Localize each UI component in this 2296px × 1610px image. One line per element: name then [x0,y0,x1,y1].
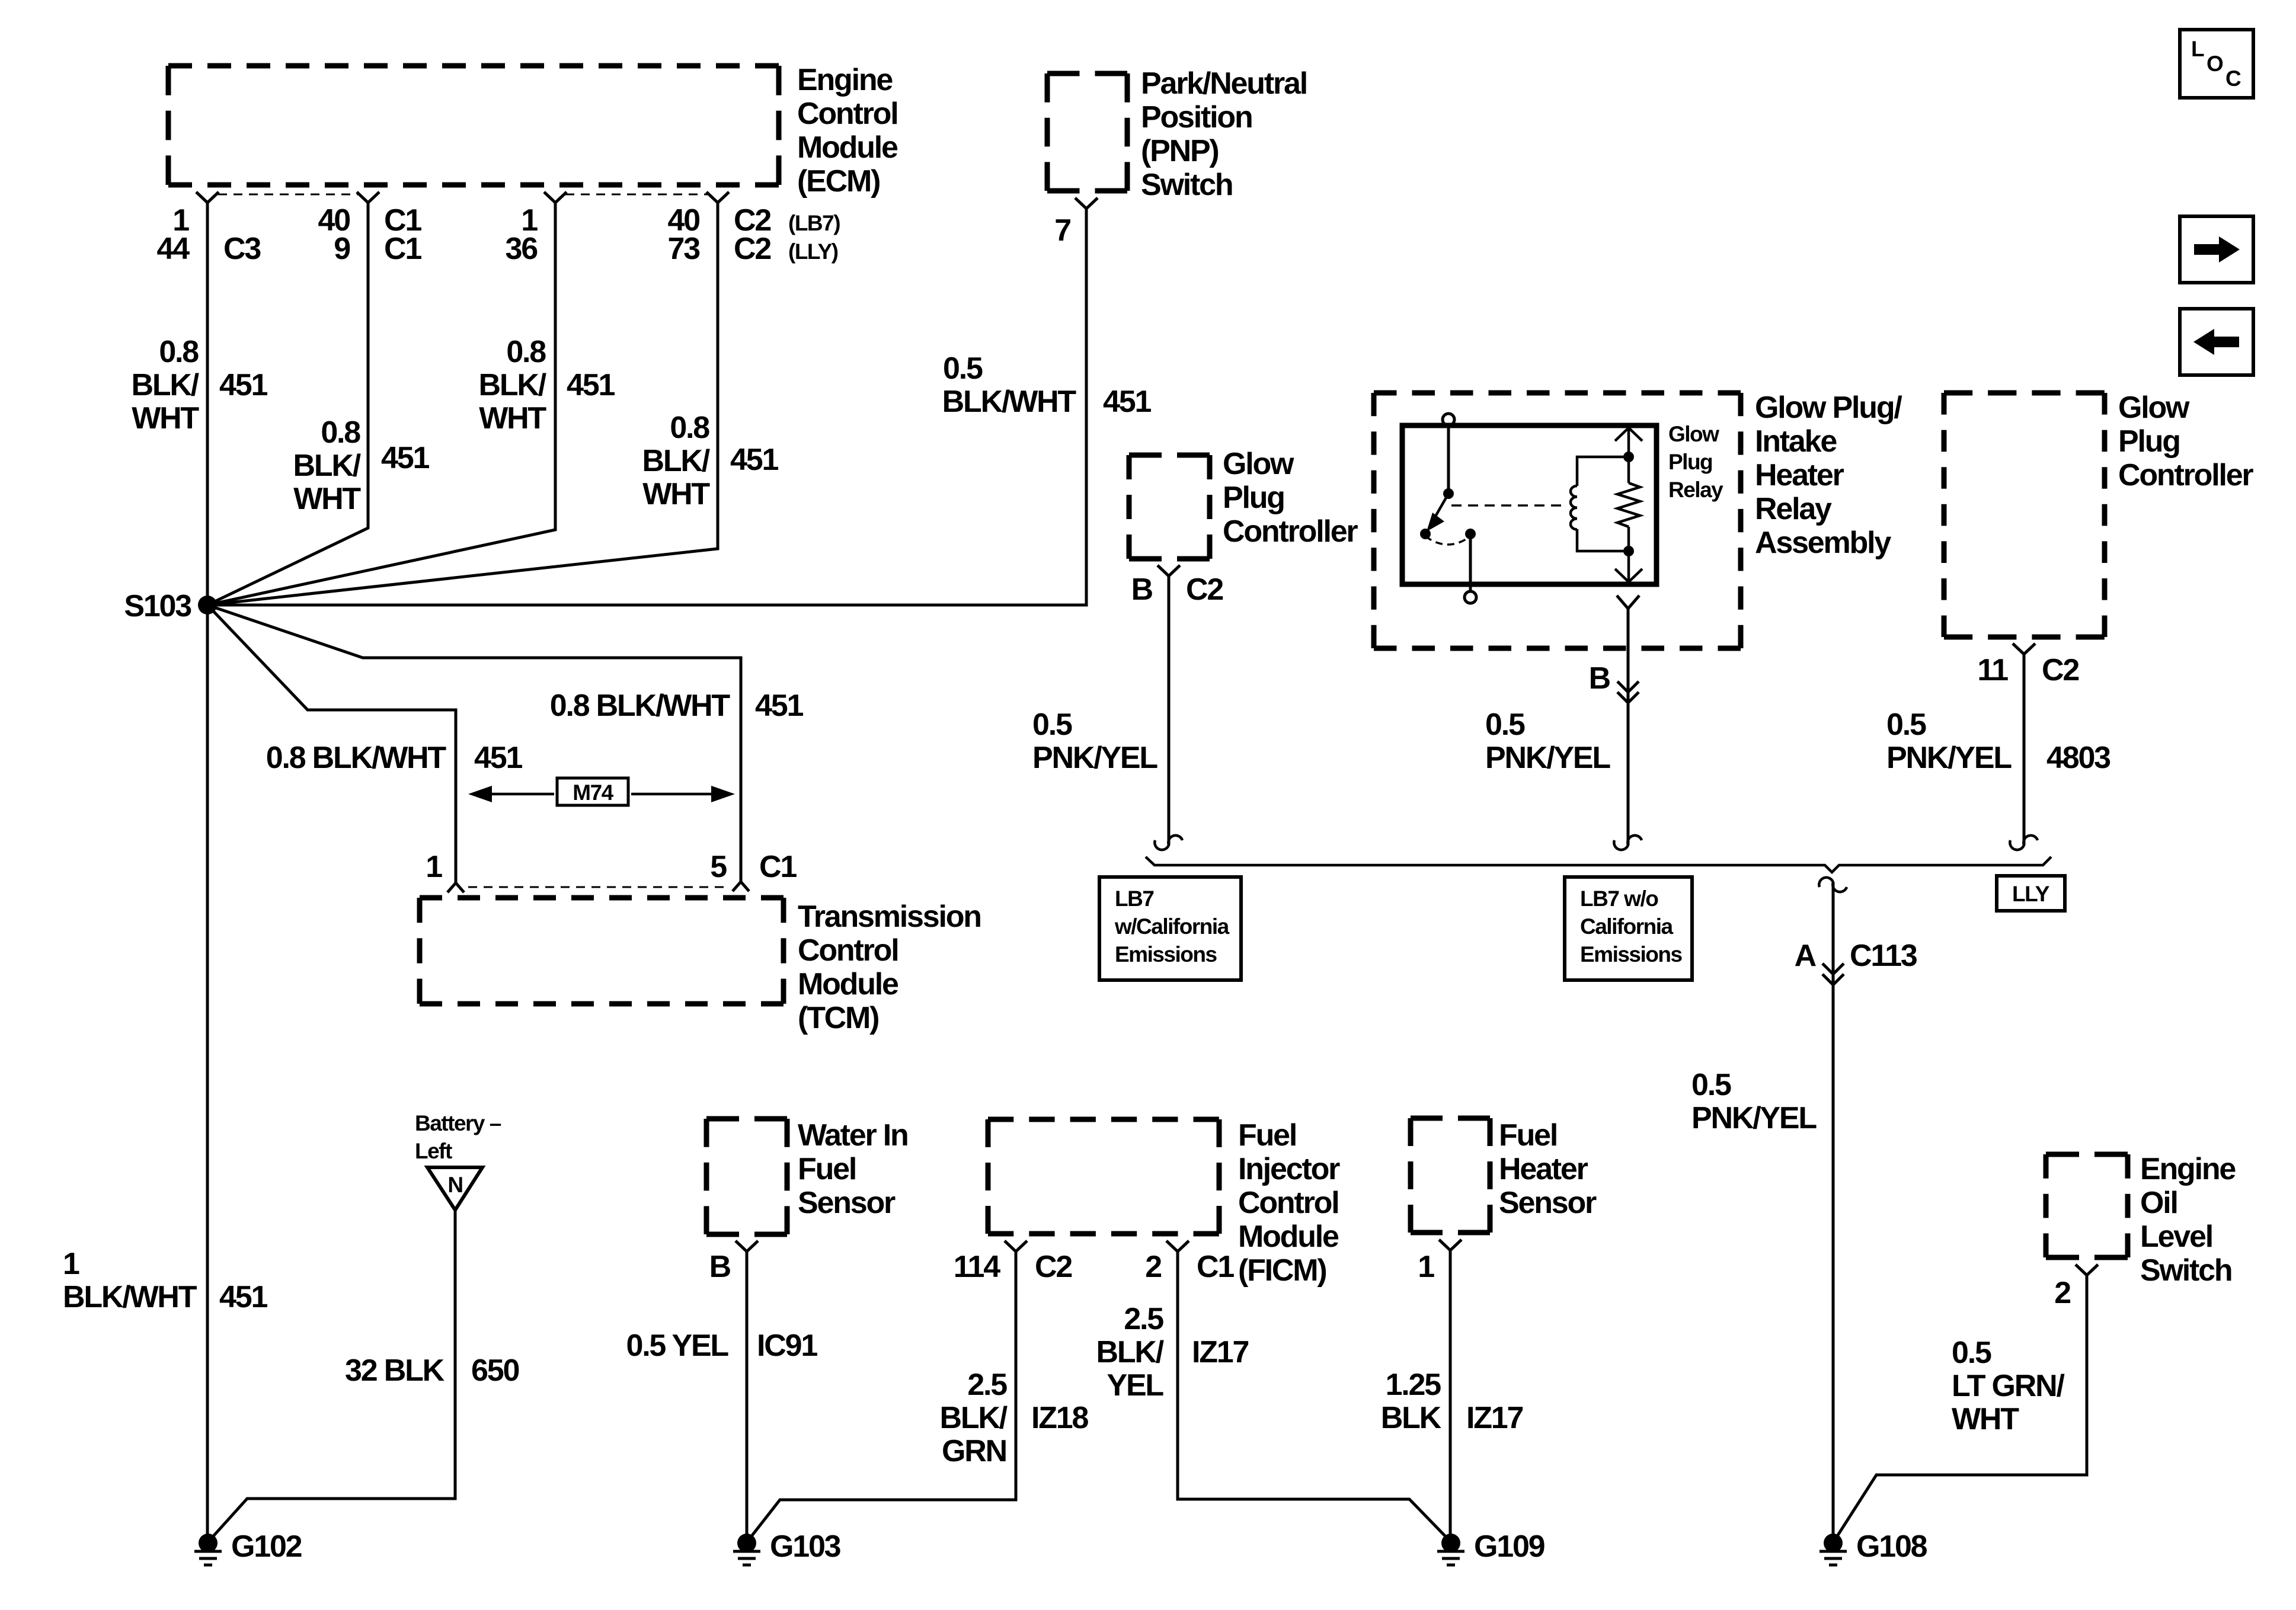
wire4 label 0.8 BLK/WHT [642,411,710,511]
S103 label [124,589,191,623]
svg-text:Intake: Intake [1755,424,1837,459]
ground G103 [733,1534,760,1565]
svg-text:7: 7 [1054,213,1070,248]
svg-text:451: 451 [755,689,803,723]
relay arrow down to box edge [1615,551,1642,582]
wire1 lower label 1 BLK/WHT 451 [63,1247,267,1314]
TCM pin5 wire label 0.8 BLK/WHT [550,689,731,723]
FICM114 wire label 2.5 BLK/ GRN [939,1368,1007,1468]
svg-text:WHT: WHT [479,401,546,436]
svg-text:Glow: Glow [2118,391,2190,425]
Water sensor pin B connector fork [736,1241,758,1251]
battery wire label 32 BLK [345,1353,445,1388]
relay coil junction dot bottom [1623,546,1634,556]
svg-text:C2: C2 [734,232,770,266]
svg-text:114: 114 [954,1250,1001,1284]
svg-text:9: 9 [334,232,350,266]
svg-text:1.25: 1.25 [1386,1368,1441,1402]
svg-text:LLY: LLY [2012,882,2050,906]
svg-text:451: 451 [567,368,615,402]
svg-text:5: 5 [710,850,727,884]
svg-text:Module: Module [1238,1219,1339,1254]
svg-text:Fuel: Fuel [1499,1118,1557,1153]
relay switch dashed travel arc [1425,536,1470,545]
relay switch arm with arrowhead [1427,494,1448,532]
harness M74 double arrow [468,786,735,802]
wire 0.5 PNK/YEL from GPC left pin B down to option brace [1168,576,1171,845]
svg-text:LT GRN/: LT GRN/ [1952,1369,2064,1403]
svg-text:44: 44 [157,232,190,266]
FICM dashed box [988,1119,1219,1234]
wire 0.8 BLK/WHT 451 from S103 to TCM pin 1 [207,605,456,883]
G102 label [231,1529,302,1564]
Fuel heater pin 1 label [1418,1250,1434,1284]
wire 0.8 BLK/WHT 451 from ECM pin 9 to S103 [207,203,368,605]
svg-text:0.8: 0.8 [670,411,709,445]
svg-text:0.8: 0.8 [321,415,360,450]
Fuel heater pin 1 connector fork [1439,1240,1462,1250]
svg-text:Control: Control [1238,1186,1338,1220]
svg-text:0.5: 0.5 [943,351,983,386]
svg-text:N: N [447,1173,462,1197]
svg-text:2: 2 [2054,1276,2070,1310]
svg-text:2.5: 2.5 [1124,1302,1163,1336]
svg-text:(FICM): (FICM) [1238,1253,1326,1288]
relay coil branch [1571,457,1629,551]
svg-text:650: 650 [471,1353,519,1388]
GPC left pin B C2 connector fork [1157,565,1180,576]
svg-text:YEL: YEL [1107,1368,1163,1403]
TCM pin 1 connector fork [447,883,464,892]
ECM pin 40/9 C1 labels [318,203,422,266]
svg-text:B: B [1589,661,1610,696]
wire3 label 0.8 BLK/WHT [478,335,546,436]
battery negative terminal triangle N [427,1167,482,1210]
svg-text:Switch: Switch [1141,168,1232,202]
svg-text:451: 451 [474,741,522,775]
C113 double chevron [1822,964,1844,985]
LOC reference box [2180,30,2253,98]
svg-text:451: 451 [730,443,778,477]
relay coil junction dot top [1623,452,1634,462]
splice S103 [198,596,217,614]
svg-text:Control: Control [797,97,897,131]
Glow Plug Relay Assembly dashed box [1374,393,1741,648]
Glow Plug Relay Assembly label [1755,391,1902,560]
svg-text:IZ17: IZ17 [1192,1335,1249,1369]
svg-text:G109: G109 [1474,1529,1544,1564]
svg-text:Assembly: Assembly [1755,526,1891,560]
FICM114 wire circuit IZ18 [1031,1401,1089,1435]
relay output connector fork [1617,596,1639,609]
svg-text:GRN: GRN [942,1434,1006,1468]
svg-text:Emissions: Emissions [1580,942,1682,966]
svg-text:PNK/YEL: PNK/YEL [1691,1101,1817,1135]
PNP switch dashed box [1047,73,1127,191]
svg-text:Engine: Engine [797,63,893,97]
PNP wire circuit number 451 [1103,385,1151,419]
svg-text:w/California: w/California [1114,914,1230,939]
relay switch output wire [1469,534,1472,591]
wire2 label 0.8 BLK/WHT [293,415,361,516]
ECM U1 dashed box [168,66,779,185]
svg-text:IZ18: IZ18 [1031,1401,1089,1435]
svg-text:36: 36 [506,232,538,266]
relay switch contact dot right [1465,529,1476,539]
wire 32 BLK 650 from battery to G102 [209,1210,455,1541]
Glow Plug Controller left label [1223,447,1358,549]
svg-text:Heater: Heater [1755,458,1844,492]
svg-text:LB7: LB7 [1115,886,1153,911]
relay resistor branch [1617,457,1640,551]
svg-text:Transmission: Transmission [798,900,981,934]
GPC left pin B C2 labels [1131,572,1223,607]
ground G109 [1437,1534,1464,1565]
svg-text:451: 451 [219,1280,267,1314]
wire4 circuit number 451 [730,443,778,477]
GPC right pin 11 C2 connector fork [2013,644,2035,654]
wire 1.25 BLK IZ17 from fuel heater sensor to G109 [1449,1250,1452,1543]
svg-text:Battery –: Battery – [415,1111,501,1135]
svg-text:(ECM): (ECM) [797,164,880,199]
G109 label [1474,1529,1544,1564]
svg-text:California: California [1580,914,1674,939]
svg-text:0.5: 0.5 [1485,708,1525,742]
svg-text:Controller: Controller [1223,514,1358,549]
svg-text:PNK/YEL: PNK/YEL [1485,741,1610,775]
svg-text:Engine: Engine [2140,1152,2236,1186]
svg-text:0.8: 0.8 [159,335,199,369]
wire 0.5 BLK/WHT 451 from PNP switch pin 7 to S103 [207,209,1086,605]
wire 0.5 YEL IC91 from water sensor to G103 [746,1251,749,1543]
FICM pin 2 C1 labels [1145,1250,1234,1284]
ECM pin 40/73 C2 labels [668,203,840,266]
svg-text:Sensor: Sensor [1499,1186,1597,1220]
relay switch contact dot left [1420,529,1431,539]
svg-text:Glow Plug/: Glow Plug/ [1755,391,1902,425]
svg-text:IZ17: IZ17 [1466,1401,1523,1435]
svg-text:Plug: Plug [2118,424,2180,459]
GPC left wire label 0.5 PNK/YEL [1032,708,1157,775]
svg-text:0.5: 0.5 [1691,1068,1731,1102]
battery negative label Battery - Left [415,1111,501,1163]
svg-text:WHT: WHT [1952,1402,2019,1436]
ECM pin 1/44 C3 labels [157,203,261,266]
svg-text:73: 73 [668,232,701,266]
svg-text:2.5: 2.5 [967,1368,1007,1402]
arrow left reference box [2180,309,2253,375]
wire 0.5 LT GRN/WHT from oil switch to G108 [1834,1275,2087,1541]
svg-text:WHT: WHT [132,401,199,436]
svg-text:0.8: 0.8 [506,335,546,369]
ECM pin 1 C3 connector fork [196,192,219,203]
arrow right reference box [2180,216,2253,283]
svg-text:0.8 BLK/WHT: 0.8 BLK/WHT [266,741,447,775]
svg-text:BLK: BLK [1381,1401,1442,1435]
A C113 wire start curl below brace [1819,878,1847,892]
FICM pin 114 C2 labels [954,1250,1072,1284]
svg-text:G102: G102 [231,1529,302,1564]
wire 0.8 BLK/WHT 451 from ECM pin 44 down to S103 and on to G102 [206,203,209,1543]
svg-text:C1: C1 [1197,1250,1234,1284]
svg-text:32 BLK: 32 BLK [345,1353,445,1388]
svg-text:S103: S103 [124,589,191,623]
fuel heater wire circuit IZ17 [1466,1401,1523,1435]
relay switch common wire [1447,425,1450,494]
GPC right pin 11 C2 labels [1977,653,2078,687]
ECM pin 1/36 connector fork [544,192,567,203]
svg-text:B: B [1131,572,1153,607]
svg-text:0.5: 0.5 [1032,708,1072,742]
TCM pin1 circuit number 451 [474,741,522,775]
wire 2.5 BLK/GRN IZ18 from FICM 114 to G103 [748,1251,1016,1541]
oil switch wire label 0.5 LT GRN/ WHT [1952,1336,2064,1436]
wire3 circuit number 451 [567,368,615,402]
svg-text:L: L [2191,37,2204,61]
svg-text:0.8 BLK/WHT: 0.8 BLK/WHT [550,689,731,723]
svg-text:Module: Module [798,967,898,1001]
svg-text:BLK/: BLK/ [478,368,546,402]
svg-text:Injector: Injector [1238,1152,1340,1186]
ECM pin 1/36 labels [506,203,538,266]
wire 0.5 PNK/YEL from brace through C113 to G108 [1832,882,1835,1543]
connector row thin dashed line C2 [565,194,708,196]
Engine Oil Level Switch dashed box [2046,1154,2128,1257]
oil switch pin 2 label [2054,1276,2070,1310]
GPC right wire end curl [2010,836,2038,850]
svg-text:BLK/: BLK/ [131,368,199,402]
LLY box [1997,876,2065,911]
option brace line [1146,857,2051,872]
relay top terminal circle [1443,414,1454,425]
svg-text:Controller: Controller [2118,458,2253,492]
svg-text:C1: C1 [384,232,421,266]
TCM dashed box [420,898,784,1004]
svg-text:Glow: Glow [1223,447,1294,481]
Glow Plug Relay inner solid box [1402,425,1657,584]
wire1 label 0.8 BLK/WHT [131,335,199,436]
oil switch pin 2 connector fork [2076,1265,2098,1275]
svg-text:C: C [2225,66,2241,91]
wire 0.5 PNK/YEL 4803 from GPC right pin 11 to option brace [2023,654,2026,845]
svg-text:1: 1 [63,1247,79,1281]
PNP wire label 0.5 BLK/WHT [942,351,1077,419]
TCM pin5 circuit number 451 [755,689,803,723]
svg-text:BLK/WHT: BLK/WHT [942,385,1077,419]
svg-text:0.5 YEL: 0.5 YEL [626,1329,728,1363]
GPC right circuit number 4803 [2046,741,2110,775]
relay pin B double chevron [1617,681,1639,703]
water sensor wire circuit IC91 [757,1329,817,1363]
FICM pin 114 C2 connector fork [1005,1241,1027,1251]
PNP pin 7 label [1054,213,1070,248]
svg-text:Relay: Relay [1755,492,1832,526]
svg-text:Oil: Oil [2140,1186,2177,1220]
svg-text:WHT: WHT [642,477,710,511]
Water sensor pin B label [709,1250,731,1284]
svg-text:C2: C2 [2042,653,2078,687]
water sensor wire label 0.5 YEL [626,1329,728,1363]
relay arrow up to box edge [1615,428,1642,457]
svg-text:0.5: 0.5 [1952,1336,1991,1370]
svg-text:Position: Position [1141,100,1252,135]
wire 0.8 BLK/WHT 451 from ECM pin 73 to S103 [207,203,718,605]
svg-text:Water In: Water In [798,1118,908,1153]
svg-text:M74: M74 [573,780,613,805]
svg-text:0.5: 0.5 [1886,708,1926,742]
TCM label [798,900,981,1035]
svg-text:PNK/YEL: PNK/YEL [1032,741,1157,775]
C113 pin A label [1795,939,1817,973]
svg-text:LB7 w/o: LB7 w/o [1580,886,1658,911]
wire 0.8 BLK/WHT 451 from ECM pin 36 to S103 [207,203,555,605]
svg-text:Control: Control [798,933,898,968]
svg-text:BLK/: BLK/ [293,449,360,483]
svg-text:C113: C113 [1850,939,1917,973]
svg-text:C2: C2 [1186,572,1223,607]
Water In Fuel Sensor label [798,1118,908,1220]
fuel heater wire label 1.25 BLK [1381,1368,1442,1435]
Glow Plug Relay label [1668,422,1723,502]
G103 label [770,1529,841,1564]
TCM pin1 wire label 0.8 BLK/WHT [266,741,447,775]
svg-text:BLK/: BLK/ [939,1401,1007,1435]
Engine Oil Level Switch label [2140,1152,2236,1288]
svg-text:BLK/: BLK/ [1096,1335,1163,1369]
LB7 w/o California Emissions box [1565,877,1692,980]
svg-text:A: A [1795,939,1817,973]
GPC right wire label 0.5 PNK/YEL [1886,708,2012,775]
svg-text:Glow: Glow [1668,422,1719,446]
svg-text:PNK/YEL: PNK/YEL [1886,741,2012,775]
ground G108 [1819,1534,1847,1565]
svg-text:Relay: Relay [1668,478,1723,502]
wire 2.5 BLK/YEL IZ17 from FICM 2 to G109 [1178,1251,1450,1541]
Fuel Heater Sensor label [1499,1118,1597,1220]
GPC left wire end curl [1155,836,1182,850]
C113 label [1850,939,1917,973]
svg-text:B: B [709,1250,731,1284]
svg-text:1: 1 [1418,1250,1434,1284]
FICM label [1238,1118,1340,1288]
ECM pin 40/73 C2 connector fork [706,192,729,203]
LB7 w/California Emissions box [1099,877,1241,980]
svg-text:G103: G103 [770,1529,841,1564]
svg-text:11: 11 [1977,653,2008,687]
svg-text:(LB7): (LB7) [788,211,840,235]
svg-text:Plug: Plug [1668,450,1712,474]
Glow Plug Controller right label [2118,391,2253,492]
wire 0.8 BLK/WHT 451 from S103 to TCM pin 5 [207,605,741,882]
FICM2 wire label 2.5 BLK/ YEL [1096,1302,1163,1403]
FICM pin 2 C1 connector fork [1166,1241,1189,1251]
svg-text:(TCM): (TCM) [798,1001,878,1035]
relay coil control dashed link [1451,504,1565,507]
FICM2 wire circuit IZ17 [1192,1335,1249,1369]
relay bottom terminal circle [1464,591,1476,603]
svg-text:Fuel: Fuel [798,1152,856,1186]
PNP switch label [1141,66,1307,202]
TCM pin 5 connector fork [733,882,749,891]
svg-text:Sensor: Sensor [798,1186,896,1220]
svg-text:C3: C3 [223,232,261,266]
TCM pin 1 label [426,850,442,884]
ground G102 [194,1534,222,1565]
svg-text:(PNP): (PNP) [1141,134,1219,168]
svg-text:Emissions: Emissions [1115,942,1217,966]
relay pin B label [1589,661,1610,696]
svg-text:(LLY): (LLY) [788,239,838,264]
relay B wire end curl [1614,836,1642,850]
svg-text:451: 451 [381,441,429,475]
svg-text:O: O [2207,52,2223,76]
svg-text:BLK/: BLK/ [642,444,709,478]
battery wire circuit number 650 [471,1353,519,1388]
Glow Plug Controller right dashed box [1944,393,2105,637]
Water In Fuel Sensor dashed box [706,1119,787,1234]
svg-text:451: 451 [219,368,267,402]
svg-text:Heater: Heater [1499,1152,1588,1186]
svg-text:Left: Left [415,1139,452,1163]
svg-text:Switch: Switch [2140,1253,2231,1288]
G108 label [1856,1529,1927,1564]
svg-text:Park/Neutral: Park/Neutral [1141,66,1307,101]
svg-text:Level: Level [2140,1219,2212,1254]
svg-text:C2: C2 [1035,1250,1072,1284]
relay switch pivot dot [1443,488,1454,499]
C113 wire label 0.5 PNK/YEL [1691,1068,1817,1135]
svg-text:BLK/WHT: BLK/WHT [63,1280,197,1314]
svg-text:WHT: WHT [293,482,361,516]
ECM pin 40/9 C1 connector fork [357,192,379,203]
wire1 circuit number 451 [219,368,267,402]
svg-text:4803: 4803 [2046,741,2110,775]
ECM label [797,63,898,199]
svg-text:2: 2 [1145,1250,1161,1284]
TCM connector row thin dashed line [468,886,729,888]
harness M74 box [557,778,628,805]
wire 0.5 PNK/YEL from relay B to option brace [1627,609,1630,845]
svg-text:IC91: IC91 [757,1329,817,1363]
Fuel Heater Sensor dashed box [1411,1118,1490,1233]
svg-text:Module: Module [797,130,898,165]
relay B wire label 0.5 PNK/YEL [1485,708,1610,775]
svg-text:Plug: Plug [1223,481,1284,515]
connector row thin dashed line C3-C1 [218,194,358,196]
svg-text:1: 1 [426,850,442,884]
Glow Plug Controller left dashed box [1129,455,1210,559]
svg-text:451: 451 [1103,385,1151,419]
PNP pin 7 connector fork [1075,198,1098,209]
svg-text:Fuel: Fuel [1238,1118,1296,1153]
svg-text:G108: G108 [1856,1529,1927,1564]
TCM pin 5 / C1 labels [710,850,797,884]
svg-text:C1: C1 [759,850,797,884]
wire2 circuit number 451 [381,441,429,475]
